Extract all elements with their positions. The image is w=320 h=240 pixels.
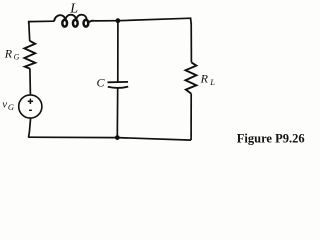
svg-text:R: R [200, 71, 209, 85]
source plus [28, 99, 33, 104]
capacitor C bottom plate [108, 87, 128, 88]
capacitor C top plate [108, 81, 129, 83]
svg-text:G: G [14, 53, 20, 62]
wire right upper [190, 23, 192, 62]
wire left lower (source to corner) [29, 118, 31, 137]
node top junction [116, 18, 121, 23]
inductor L [54, 15, 95, 27]
wire top-right (node to corner) [118, 18, 191, 24]
svg-text:L: L [69, 1, 78, 16]
resistor RL [186, 62, 197, 93]
capacitor branch upper wire [117, 21, 119, 82]
source vG [19, 95, 42, 118]
wire top-left (corner to inductor) [29, 21, 55, 23]
svg-text:v: v [2, 98, 7, 110]
source minus [29, 109, 32, 111]
svg-text:C: C [97, 76, 106, 90]
wire left mid (resistor to source) [29, 68, 32, 95]
wire top-mid (inductor to node) [95, 20, 118, 22]
node bottom junction [115, 135, 120, 140]
wire left upper (corner to resistor) [28, 22, 31, 41]
svg-text:G: G [8, 102, 14, 112]
svg-text:L: L [209, 77, 215, 87]
svg-text:R: R [4, 47, 13, 61]
svg-text:Figure P9.26: Figure P9.26 [237, 132, 305, 146]
capacitor branch lower wire [116, 88, 118, 137]
wire bottom right [117, 138, 191, 141]
wire bottom left [28, 136, 117, 138]
wire right lower [190, 94, 192, 140]
resistor RG [24, 41, 35, 69]
